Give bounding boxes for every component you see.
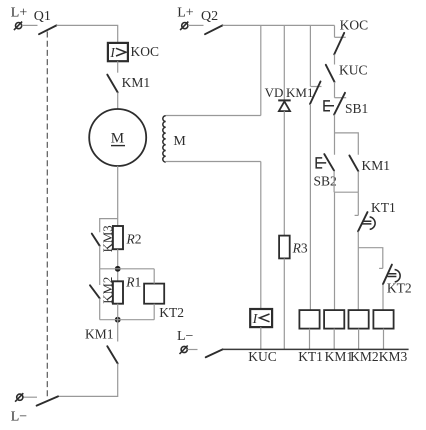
svg-text:KM3: KM3 — [379, 349, 408, 364]
svg-text:KOC: KOC — [340, 18, 369, 33]
relay coil KUC undercurrent element — [250, 309, 272, 327]
relay KOC overcurrent element — [108, 43, 159, 61]
wire branch v1 upper — [260, 25, 262, 115]
svg-text:KT1: KT1 — [371, 200, 396, 215]
contact KM3 — [92, 225, 115, 252]
wire — [334, 192, 336, 310]
resistor R1 — [113, 274, 141, 303]
terminal X4 — [180, 346, 188, 355]
relay coil KM2 — [349, 310, 369, 329]
relay coil KM1 — [324, 310, 344, 329]
resistor R2 — [113, 226, 142, 249]
contact KT1 time-delay break — [355, 200, 396, 231]
contact KM1 main — [107, 75, 150, 93]
wire — [187, 349, 197, 351]
svg-text:Q1: Q1 — [34, 9, 51, 24]
svg-text:KT1: KT1 — [298, 349, 323, 364]
wire bottom rail — [223, 348, 409, 350]
svg-text:KOC: KOC — [131, 44, 160, 59]
node junction dot1 — [115, 266, 121, 272]
svg-text:KM1: KM1 — [286, 85, 313, 100]
svg-text:KT2: KT2 — [387, 280, 412, 295]
mechanical link Q1 (dashed) — [46, 32, 48, 400]
terminal X2 — [15, 393, 23, 402]
wire — [99, 246, 101, 269]
svg-text:L−: L− — [11, 410, 28, 425]
wire node N2 — [334, 171, 358, 193]
wire — [334, 82, 336, 98]
wire node1 — [100, 268, 155, 270]
svg-text:SB2: SB2 — [314, 174, 337, 189]
relay coil KM3 — [373, 310, 393, 329]
relay coil KT2 (parallel to R1) — [144, 284, 184, 320]
wire — [382, 284, 384, 310]
wire top rail — [223, 24, 335, 26]
inductor LM field winding — [163, 116, 187, 162]
svg-text:KM2: KM2 — [350, 349, 379, 364]
svg-text:R2: R2 — [126, 232, 142, 247]
contact KM2 — [90, 277, 115, 304]
wire — [117, 92, 119, 109]
contact KUC make — [326, 62, 368, 82]
wire — [309, 104, 311, 310]
wire — [117, 61, 119, 72]
wire — [283, 111, 285, 236]
svg-text:KM1: KM1 — [122, 75, 151, 90]
wire branch v2 upper — [283, 25, 285, 100]
switch Q2 lower blade — [206, 349, 223, 357]
svg-text:R3: R3 — [292, 241, 308, 256]
svg-text:L+: L+ — [177, 6, 194, 21]
svg-text:Q2: Q2 — [201, 9, 218, 24]
contact KM1 make (self hold) — [349, 156, 390, 174]
wire node N3 — [358, 231, 383, 310]
wire — [117, 166, 119, 226]
wire branch v4 upper — [334, 25, 336, 37]
svg-text:KM1: KM1 — [362, 158, 391, 173]
wire node N1 — [335, 115, 359, 155]
terminal X1 — [14, 22, 22, 31]
switch Q1 lower pole — [37, 396, 58, 405]
wire — [57, 25, 118, 43]
svg-text:L−: L− — [177, 329, 194, 344]
button SB1 stop — [324, 93, 368, 116]
wire KM2 branch upper — [99, 269, 101, 285]
wire — [58, 364, 118, 397]
resistor R3 — [279, 236, 308, 259]
wire — [334, 54, 336, 64]
wire — [283, 258, 285, 349]
svg-text:SB1: SB1 — [345, 101, 368, 116]
wire — [309, 329, 311, 350]
wire KT2 branch — [153, 269, 155, 320]
svg-text:KUC: KUC — [339, 62, 368, 77]
wire field top — [166, 115, 261, 117]
svg-text:KUC: KUC — [248, 349, 277, 364]
svg-text:R1: R1 — [125, 274, 141, 289]
wire KM3 bypass top — [100, 219, 118, 233]
button SB2 start — [314, 154, 337, 188]
terminal X3 — [180, 22, 188, 31]
wire node2 — [100, 319, 155, 321]
motor M armature — [89, 109, 146, 166]
wire branch v5 — [357, 192, 359, 215]
relay coil KT1 — [299, 310, 319, 329]
contact KT2 time-delay break — [379, 265, 412, 296]
wire — [260, 327, 262, 349]
wire field bottom — [166, 161, 261, 163]
node junction dot2 — [115, 317, 121, 323]
wire — [117, 249, 119, 281]
wire — [333, 329, 335, 350]
wire — [358, 329, 360, 350]
contact KOC break — [334, 18, 368, 55]
svg-text:VD: VD — [265, 85, 284, 100]
svg-text:M: M — [111, 131, 124, 147]
wire — [99, 298, 101, 319]
wire branch v3 upper — [309, 25, 311, 86]
wire — [383, 329, 385, 350]
contact KM1 lower — [85, 327, 118, 364]
contact KM1 break (for KT1 coil) — [286, 82, 322, 105]
svg-text:L+: L+ — [11, 6, 28, 21]
wire — [188, 24, 204, 26]
wire — [22, 24, 38, 26]
svg-text:KM1: KM1 — [325, 349, 354, 364]
wire — [117, 304, 119, 342]
wire — [23, 396, 37, 398]
svg-text:KM1: KM1 — [85, 327, 114, 342]
wire branch v1 lower — [260, 162, 262, 310]
svg-text:M: M — [173, 134, 186, 149]
svg-text:KT2: KT2 — [159, 305, 184, 320]
diode VD — [265, 85, 291, 111]
